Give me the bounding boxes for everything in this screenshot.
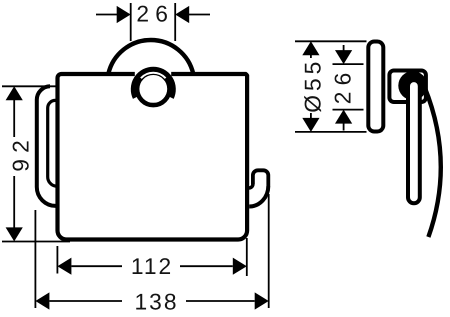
front view: spare hook top cap and right edge: [253, 170, 268, 186]
front view: knob flange arc (cutout ring): [133, 69, 173, 98]
dimension D55 side: ticks: [295, 40, 367, 42]
dimension 92 left: line, arrows: [13, 98, 15, 137]
side view: housing box: [389, 71, 426, 103]
front view: cover (flap) body fill: [58, 74, 248, 240]
side view: roll bar hanging down: [408, 80, 420, 203]
dimension 112 bottom: line, arrows: [71, 265, 122, 267]
dimension 138 bottom: extension lines: [34, 210, 36, 308]
svg-text:92: 92: [8, 134, 34, 172]
front view: roll bar inner edge: [48, 100, 56, 186]
dimension 26 side: ticks: [333, 63, 364, 65]
svg-text:26: 26: [136, 0, 174, 26]
dimension 92 left: extension line bottom baseline: [2, 241, 70, 243]
dimension 138 bottom: line, arrows: [49, 300, 122, 302]
front view: roll bar top thin line (92 reference, extends to left margin): [2, 85, 131, 87]
front view: roll bar outer edge (top bend, left vertical, bottom bend): [37, 86, 56, 206]
dimension 26 side: line, arrows outside: [343, 45, 345, 52]
svg-text:26: 26: [330, 67, 356, 105]
side view: cover arc (curved flap seen from side): [425, 87, 441, 237]
front view: cover outline with top-edge gap at knob cutout: [58, 74, 248, 240]
dimension D55 side: line, arrows: [310, 53, 312, 58]
svg-text:Ø55: Ø55: [300, 58, 326, 113]
svg-text:112: 112: [131, 253, 173, 279]
side view: wall plate rounded rect: [368, 42, 383, 132]
front view: white crescent between flange and knob: [141, 73, 166, 79]
dimension 26 top: leaders and arrows: [96, 14, 117, 16]
front view: hook inner small bend to cover edge: [249, 184, 253, 188]
front view: wall rosette arc behind cover: [108, 40, 193, 74]
side view: pivot disc: [398, 71, 427, 100]
dimension 26 top: extension lines: [130, 3, 132, 41]
svg-text:138: 138: [134, 288, 178, 314]
front view: knob circle: [137, 73, 169, 105]
front view: hook outer bend arc to cover edge: [249, 186, 268, 207]
dimension 112 bottom: extension lines: [56, 246, 58, 274]
